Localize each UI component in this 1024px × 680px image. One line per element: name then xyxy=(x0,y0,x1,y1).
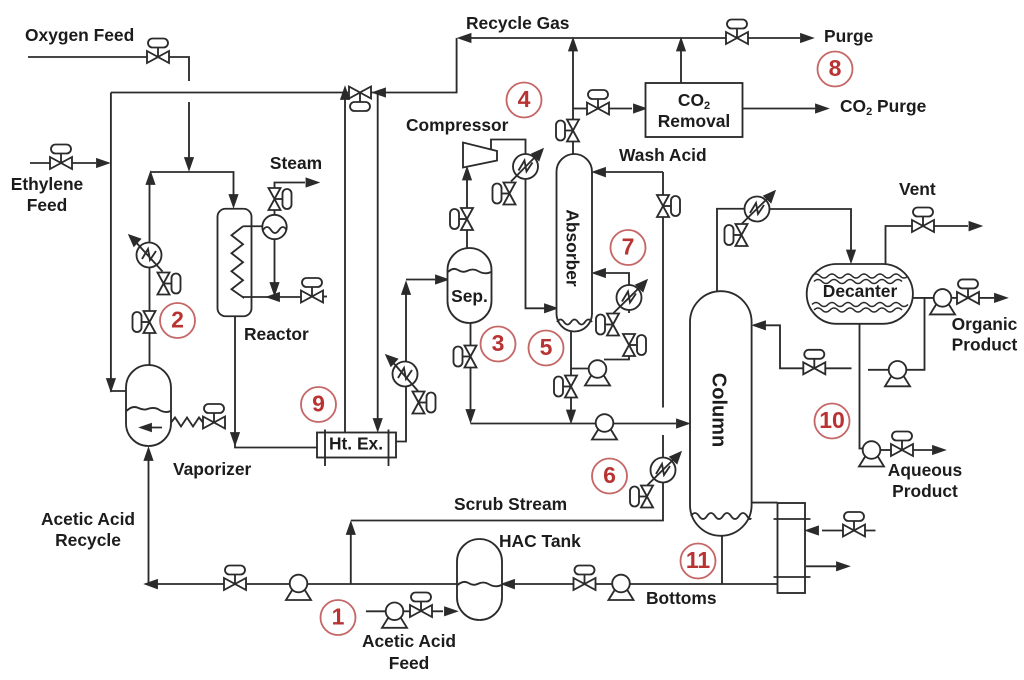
compressor discharge pipe xyxy=(491,140,526,155)
arrow vaporizer overhead up into header xyxy=(147,173,155,184)
wire acetic acid recycle xyxy=(151,583,457,585)
separator liquid level xyxy=(448,269,491,273)
arrow into column xyxy=(677,420,688,428)
absorber liquid wave xyxy=(557,320,592,325)
circled 4 xyxy=(507,83,542,118)
heat exchanger condenser xyxy=(745,197,770,222)
wire reflux branch down xyxy=(907,298,925,370)
wire condensate stub xyxy=(323,296,327,298)
circled 6 xyxy=(592,459,627,494)
wire reboiler heating inlet xyxy=(822,530,876,532)
svg-text:Bottoms: Bottoms xyxy=(646,588,717,608)
pump acetic feed xyxy=(382,603,407,628)
arrow into mix valve from right xyxy=(374,89,385,97)
valve CO2 removal feed xyxy=(587,90,609,115)
arrow reactor effluent down xyxy=(231,433,239,444)
wire aftercooler to absorber xyxy=(526,179,546,308)
arrow into separator xyxy=(436,276,447,284)
arrow HX diagonal (NE) xyxy=(648,456,678,485)
svg-text:Ethylene: Ethylene xyxy=(11,174,84,194)
circled 2 xyxy=(160,303,195,338)
wire pumparound return xyxy=(605,273,629,285)
wire aqueous product xyxy=(913,449,932,451)
svg-text:Vaporizer: Vaporizer xyxy=(173,459,252,479)
wire ethylene feed xyxy=(30,162,50,164)
arrow reboiler outlet xyxy=(837,563,848,571)
wire column to reboiler xyxy=(752,502,778,504)
pump column feed xyxy=(592,414,617,439)
wire wash acid riser upper xyxy=(662,172,664,408)
arrow CO2 return into recycle line xyxy=(677,40,685,51)
wire main gas loop horizontal xyxy=(111,92,348,94)
svg-text:Purge: Purge xyxy=(824,26,874,46)
svg-text:Recycle Gas: Recycle Gas xyxy=(466,13,569,33)
wire pumparound suction xyxy=(571,368,589,370)
arrow pumparound into absorber xyxy=(594,269,605,277)
valve oxygen feed xyxy=(147,39,169,64)
svg-text:10: 10 xyxy=(819,407,845,433)
svg-text:CO2 Purge: CO2 Purge xyxy=(840,96,927,118)
wire valve to CO2 removal box xyxy=(609,108,632,110)
svg-text:Vent: Vent xyxy=(899,179,936,199)
svg-text:7: 7 xyxy=(622,234,635,260)
pump reflux xyxy=(885,361,910,386)
valve reflux xyxy=(803,350,825,375)
valve separator bottoms (vertical, cap left) xyxy=(454,346,477,368)
svg-text:11: 11 xyxy=(686,547,711,573)
valve ethylene feed xyxy=(50,145,72,170)
wire pump to aqueous valve xyxy=(880,449,891,451)
heat exchanger on separator feed xyxy=(393,362,418,387)
heat exchanger compressor aftercooler xyxy=(513,154,538,179)
arrow into compressor xyxy=(463,169,471,180)
svg-text:Reactor: Reactor xyxy=(244,324,309,344)
pump organic xyxy=(930,289,955,314)
valve compressor suction (vertical, cap left) xyxy=(450,208,473,230)
svg-text:Sep.: Sep. xyxy=(451,286,488,306)
vaporizer vessel xyxy=(126,365,171,446)
svg-text:3: 3 xyxy=(492,330,505,356)
arrow HX diagonal (NE) xyxy=(614,284,644,313)
valve HX aftercooler (vertical, cap left) xyxy=(493,183,516,205)
wire steam drum blowdown xyxy=(274,239,276,290)
arrow recycle gas into Ht.Ex xyxy=(374,419,382,430)
arrow purge xyxy=(801,34,812,42)
pump bottoms xyxy=(609,575,634,600)
steam drum circle xyxy=(262,215,286,239)
Ht.Ex box xyxy=(317,433,396,458)
arrow bottoms into HAC tank xyxy=(503,580,514,588)
circled 9 xyxy=(301,387,336,422)
wire decanter organic outlet xyxy=(913,297,934,299)
wire branch to CO2 removal xyxy=(573,108,587,110)
reactor vessel xyxy=(218,209,252,317)
arrow up to separator corner xyxy=(402,283,410,294)
svg-text:Decanter: Decanter xyxy=(823,281,898,301)
arrow into reboiler xyxy=(807,527,818,535)
valve acetic recycle xyxy=(224,566,246,591)
wire separator top to compressor suction xyxy=(466,171,468,248)
valve reboiler heating xyxy=(843,512,865,537)
svg-text:Oxygen Feed: Oxygen Feed xyxy=(25,25,134,45)
valve steam (vertical, cap right) xyxy=(269,188,292,210)
wire loop left vertical xyxy=(110,93,112,389)
heater zigzag xyxy=(171,418,203,427)
svg-text:1: 1 xyxy=(332,604,345,630)
valve heater xyxy=(203,404,225,429)
valve absorber overhead (vertical, cap left) xyxy=(556,120,579,142)
wire pump to column xyxy=(613,423,676,425)
circled 3 xyxy=(481,327,516,362)
wire separator bottoms xyxy=(471,323,596,424)
wire organic product xyxy=(979,297,994,299)
decanter interface waves upper xyxy=(812,274,908,278)
wire vaporizer overhead riser xyxy=(149,184,151,365)
svg-text:Feed: Feed xyxy=(27,195,68,215)
wire absorber bottoms xyxy=(570,332,572,419)
valve vaporizer overhead (vertical, cap left) xyxy=(133,311,156,333)
arrow absorber overhead into recycle line xyxy=(569,40,577,51)
svg-text:Aqueous: Aqueous xyxy=(888,460,962,480)
arrow vent out xyxy=(970,222,981,230)
circled 10 xyxy=(815,404,850,439)
wire oxygen feed xyxy=(28,56,147,58)
valve pumparound (vertical, cap right) xyxy=(623,334,646,356)
arrow condensate into reactor xyxy=(268,293,279,301)
wire oxygen feed to down-run xyxy=(169,57,189,160)
svg-text:Acetic Acid: Acetic Acid xyxy=(41,509,135,529)
circled 5 xyxy=(529,331,564,366)
CO2 removal box xyxy=(646,83,743,137)
arrow HX diagonal (NW) xyxy=(133,239,163,272)
pump pumparound xyxy=(585,360,610,385)
arrow blowdown down xyxy=(271,283,279,294)
wire wash acid into absorber top xyxy=(605,171,663,173)
reboiler tube sheet ticks xyxy=(774,519,811,577)
arrow aqueous product xyxy=(933,446,944,454)
arrow separator bottoms down xyxy=(467,410,475,421)
valve recycle mix (cap below) xyxy=(349,87,371,112)
circled 8 xyxy=(818,52,853,87)
valve HX bypass (vertical, cap right) xyxy=(158,273,181,295)
svg-text:5: 5 xyxy=(540,334,553,360)
svg-text:9: 9 xyxy=(312,391,325,417)
valve absorber bottoms (vertical, cap left) xyxy=(554,376,577,398)
column vessel xyxy=(690,291,752,536)
wire condensate line xyxy=(243,296,301,298)
svg-text:Organic: Organic xyxy=(952,314,1018,334)
arrow acetic feed into tank xyxy=(445,608,456,616)
svg-text:Compressor: Compressor xyxy=(406,115,509,135)
arrow organic product xyxy=(995,294,1006,302)
valve HX sep (vertical, cap right) xyxy=(413,392,436,414)
wire absorber overhead riser xyxy=(572,44,574,154)
wire steam drum to valve xyxy=(275,183,306,215)
arrow scrub riser up xyxy=(347,523,355,534)
arrow into absorber bottom xyxy=(545,305,556,313)
heat exchanger wash acid cooler xyxy=(651,458,676,483)
valve aqueous product xyxy=(891,432,913,457)
svg-text:Scrub Stream: Scrub Stream xyxy=(454,494,567,514)
circled 1 xyxy=(321,600,356,635)
heat exchanger vaporizer overhead xyxy=(137,243,162,268)
wire pump to feed valve xyxy=(403,610,410,612)
valve organic product xyxy=(957,279,979,304)
svg-text:Product: Product xyxy=(892,481,958,501)
wire reflux pump stub xyxy=(868,369,889,371)
valve purge xyxy=(726,20,748,45)
arrow HX diagonal (NW) xyxy=(390,359,418,391)
valve condensate xyxy=(301,278,323,303)
arrow into decanter top xyxy=(847,251,855,262)
arrow oxygen into mix header xyxy=(185,158,193,169)
valve HX condenser (vertical, cap left) xyxy=(725,224,748,246)
steam drum liquid wave xyxy=(263,227,287,233)
wire column bottoms drain xyxy=(721,537,723,585)
wire recycle gas down to Ht.Ex xyxy=(377,93,379,426)
wire reactor bottom to Ht.Ex xyxy=(235,316,317,447)
wire recycle gas main line xyxy=(462,37,726,39)
wire reflux through valve xyxy=(765,325,852,368)
svg-text:4: 4 xyxy=(518,86,531,112)
wire scrub riser xyxy=(350,532,352,584)
arrow wash acid into absorber xyxy=(594,168,605,176)
reactor coil xyxy=(232,226,244,297)
HAC tank vessel xyxy=(457,539,502,620)
wire reactor feed header xyxy=(151,172,234,202)
svg-text:Wash Acid: Wash Acid xyxy=(619,145,707,165)
wire pump to organic valve xyxy=(951,297,957,299)
arrow HX diagonal (NE) xyxy=(742,195,771,224)
svg-text:8: 8 xyxy=(829,55,842,81)
wire Ht.Ex outlet to separator xyxy=(396,280,435,442)
svg-text:Feed: Feed xyxy=(389,653,430,673)
wire coil to steam drum xyxy=(243,225,263,227)
valve wash acid (vertical, cap right) xyxy=(657,195,680,217)
svg-text:2: 2 xyxy=(171,307,184,333)
arrow up into loop from Ht.Ex line xyxy=(341,88,349,99)
wire vent xyxy=(886,226,969,264)
column liquid wave xyxy=(691,513,751,519)
arrow into CO2 removal box xyxy=(634,105,645,113)
arrow HX diagonal (NE) xyxy=(511,153,539,182)
vaporizer internal arrow xyxy=(141,424,162,431)
arrow into reactor top xyxy=(230,195,238,206)
arrow steam out xyxy=(307,179,318,187)
Ht.Ex tube sheet ticks xyxy=(325,430,389,467)
heat exchanger pumparound cooler xyxy=(617,285,642,310)
wire bottoms line xyxy=(506,583,778,585)
arrow recycle into riser corner xyxy=(146,580,157,588)
svg-text:Recycle: Recycle xyxy=(55,530,121,550)
arrow into vaporizer bottom xyxy=(145,449,153,460)
wire acetic acid feed xyxy=(366,610,386,612)
wire CO2 purge xyxy=(743,108,816,110)
valve bottoms xyxy=(574,566,596,591)
arrow loop into vaporizer feed corner xyxy=(107,379,115,390)
wire feed valve to tank xyxy=(432,610,443,612)
pump acetic recycle xyxy=(286,575,311,600)
absorber vessel xyxy=(557,154,593,332)
svg-text:Ht. Ex.: Ht. Ex. xyxy=(329,434,383,454)
HAC tank liquid level xyxy=(458,582,502,586)
svg-text:6: 6 xyxy=(603,462,616,488)
valve HX wash (vertical, cap left) xyxy=(630,486,653,508)
svg-text:Product: Product xyxy=(952,335,1018,355)
svg-text:HAC Tank: HAC Tank xyxy=(499,531,581,551)
wire vaporizer bottom feed xyxy=(148,455,150,584)
wire ethylene feed to loop line xyxy=(72,162,96,164)
decanter vessel xyxy=(807,264,913,324)
wire column overhead xyxy=(717,209,744,291)
separator vessel xyxy=(448,248,492,323)
valve HX pumparound (vertical, cap left) xyxy=(596,314,619,336)
arrow reflux into column xyxy=(754,322,765,330)
pump aqueous xyxy=(859,441,884,466)
wire valve to recycle corner xyxy=(371,38,457,93)
svg-text:Steam: Steam xyxy=(270,153,322,173)
wire CO2 removal return riser xyxy=(680,44,682,83)
arrow absorber bottoms down xyxy=(567,411,575,422)
wire pumparound discharge xyxy=(604,310,629,360)
compressor body xyxy=(463,143,497,168)
valve vent xyxy=(912,208,934,233)
arrow recycle gas leftward xyxy=(460,34,471,42)
reboiler vessel xyxy=(778,503,806,593)
circled 7 xyxy=(611,230,646,265)
wire corner into vaporizer xyxy=(111,388,126,391)
wire condenser to decanter xyxy=(770,209,852,255)
wire reboiler heating outlet xyxy=(806,565,836,567)
vaporizer liquid level xyxy=(127,407,171,412)
arrow CO2 purge xyxy=(816,105,827,113)
wire wash acid riser lower xyxy=(351,435,663,521)
wire cold return up (Ht.Ex to loop) xyxy=(344,93,346,433)
arrow ethylene into loop line xyxy=(97,159,108,167)
valve acetic feed xyxy=(410,593,432,618)
decanter interface waves lower xyxy=(812,303,908,307)
svg-text:Acetic Acid: Acetic Acid xyxy=(362,631,456,651)
wire purge xyxy=(748,37,800,39)
circled 11 xyxy=(681,544,716,579)
wire decanter bottom outlet xyxy=(860,324,863,449)
svg-text:Absorber: Absorber xyxy=(563,209,583,287)
svg-text:Removal: Removal xyxy=(658,111,731,131)
svg-text:Column: Column xyxy=(708,373,730,447)
